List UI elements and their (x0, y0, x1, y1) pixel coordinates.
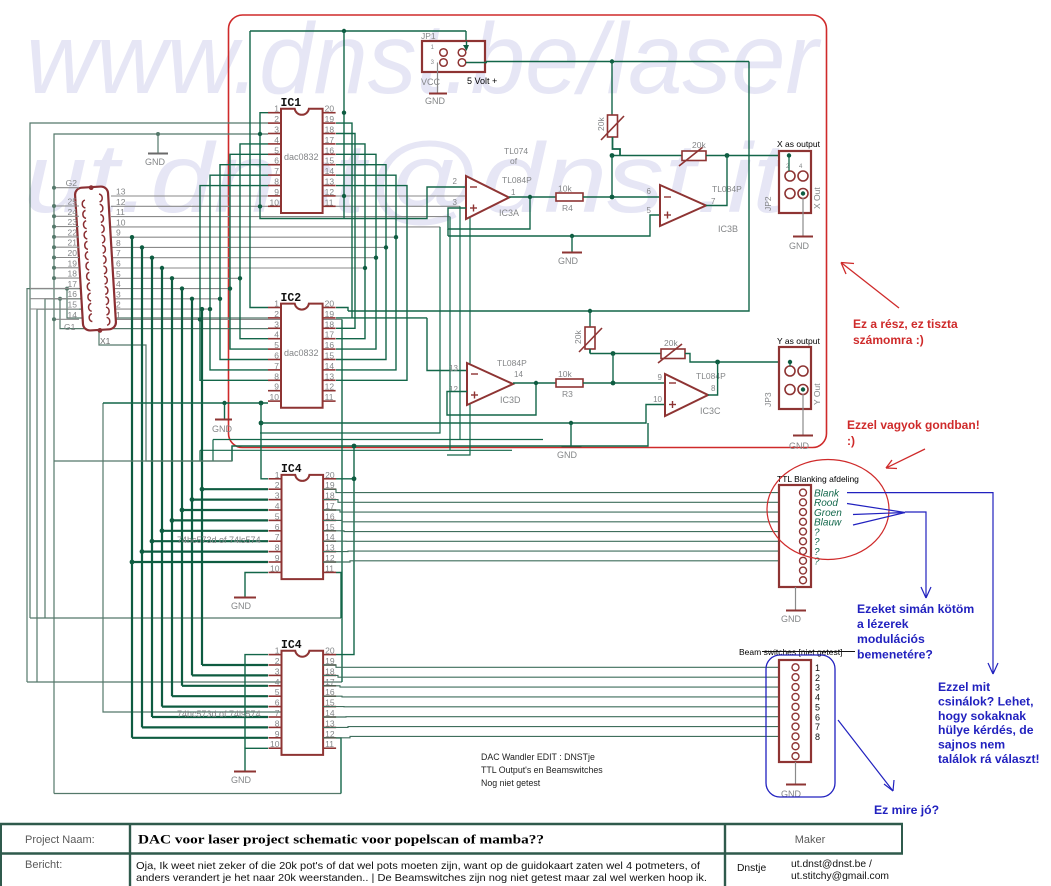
svg-text:3: 3 (116, 289, 121, 299)
IC IC2 pin 3 (268, 327, 281, 329)
svg-text:3: 3 (274, 125, 279, 135)
IC IC2 pin 6 (268, 359, 281, 361)
svg-text:12: 12 (449, 385, 458, 394)
bus wire x=376 right of IC1 (336, 154, 376, 349)
svg-text:8: 8 (274, 371, 279, 381)
red annotation box (229, 15, 827, 448)
IC IC2 pin 19 (323, 317, 336, 319)
wire IC4 upper pin 13 to TTL pin 7 (323, 550, 779, 553)
bus wire x=210 IC1-IC2 (210, 175, 268, 370)
svg-text:25: 25 (68, 197, 78, 207)
IC IC4 pin 11 (323, 571, 336, 573)
IC IC1 pin 8 (268, 185, 281, 187)
wire IC4 upper pin 12 to TTL pin 8 (323, 561, 779, 562)
IC IC2 pin 13 (323, 379, 336, 381)
svg-text:GND: GND (145, 157, 166, 167)
svg-text:anders verandert je het naar 2: anders verandert je het naar 20k weersta… (136, 873, 707, 884)
wire R4 to IC3B minus (583, 196, 660, 198)
svg-text:11: 11 (325, 563, 334, 573)
svg-text:5: 5 (116, 269, 121, 279)
ground GND under JP3 (801, 387, 805, 391)
svg-text:Ez mire jó?: Ez mire jó? (874, 803, 939, 817)
IC IC2 pin 20 (323, 307, 336, 309)
svg-text:15: 15 (325, 351, 335, 361)
wire y=461 horizontal (54, 460, 232, 462)
svg-text:15: 15 (325, 156, 335, 166)
IC IC4 pin 7 (269, 716, 282, 718)
wire IC4 upper pin 17 to TTL pin 3 (323, 510, 779, 512)
svg-text:18: 18 (325, 125, 335, 135)
svg-text:Oja, Ik weet niet zeker of die: Oja, Ik weet niet zeker of die 20k pot's… (136, 861, 700, 872)
IC IC4 pin 3 (269, 499, 282, 501)
svg-text:6: 6 (647, 187, 652, 196)
IC IC1 pin 5 (268, 153, 281, 155)
svg-text:2: 2 (453, 177, 458, 186)
IC IC4 pin 4 (269, 509, 282, 511)
wire control net DB25 pin12 down (459, 206, 461, 439)
wire IC3D feedback loop (447, 383, 536, 415)
svg-text:hülye kérdés, de: hülye kérdés, de (938, 723, 1034, 737)
svg-text:sajnos nem: sajnos nem (938, 738, 1005, 752)
svg-text:20k: 20k (596, 117, 606, 131)
svg-text:TTL Output's en Beamswitches: TTL Output's en Beamswitches (481, 765, 603, 775)
svg-text:10: 10 (116, 217, 126, 227)
bus wire x=200 IC1-IC2 (200, 186, 268, 381)
wire IC4 lower pin 19 to Beam pin 1 (323, 665, 779, 667)
svg-text:22: 22 (68, 227, 78, 237)
svg-text:2: 2 (815, 673, 820, 683)
data bus wire D3 (171, 278, 173, 696)
IC IC1 pin 6 (268, 164, 281, 166)
IC IC2 pin 1 (268, 307, 281, 309)
wire IC2 pin3 net to left frame (60, 299, 268, 329)
svg-text:G1: G1 (64, 322, 76, 332)
wire y=423 horizontal to IC3C plus (261, 405, 665, 424)
IC IC2 body (281, 304, 323, 408)
svg-text:GND: GND (425, 96, 446, 106)
svg-text:16: 16 (325, 340, 335, 350)
svg-text:20: 20 (68, 248, 78, 258)
svg-text:20: 20 (325, 299, 335, 309)
svg-text:G2: G2 (66, 178, 78, 188)
svg-text:6: 6 (274, 156, 279, 166)
IC IC2 pin 15 (323, 359, 336, 361)
svg-text:74hc573d of 74ls574: 74hc573d of 74ls574 (177, 709, 261, 719)
IC IC4 pin 3 (269, 674, 282, 676)
svg-text:4: 4 (274, 135, 279, 145)
svg-text:a lézerek: a lézerek (857, 617, 909, 631)
svg-text:11: 11 (325, 739, 334, 749)
svg-text:JP1: JP1 (421, 31, 436, 41)
svg-text:GND: GND (231, 775, 252, 785)
potentiometer 20k horizontal X (682, 151, 706, 161)
wire IC1 pin20 vertical x=344 (343, 31, 345, 219)
ground GND right of IC3D (569, 421, 573, 425)
svg-text:7: 7 (275, 532, 280, 542)
IC IC4 pin 16 (323, 519, 336, 521)
svg-text:20k: 20k (692, 140, 706, 150)
svg-text:Ezzel vagyok gondban!: Ezzel vagyok gondban! (847, 418, 980, 432)
svg-text:TL084P: TL084P (502, 175, 532, 185)
wire IC2 pin19 row to IC3D minus (336, 317, 427, 319)
IC IC4 pin 8 (269, 726, 282, 728)
wire IC3D output to R3 (513, 382, 556, 384)
IC IC4 pin 4 (269, 685, 282, 687)
wire G1 net from connector bottom (99, 332, 232, 461)
svg-text:4: 4 (275, 501, 280, 511)
svg-text:10: 10 (270, 392, 280, 402)
svg-text:dac0832: dac0832 (284, 348, 319, 358)
wire x=749 down to Y rail (348, 62, 749, 312)
svg-text:24: 24 (68, 207, 78, 217)
IC IC4 pin 12 (323, 561, 336, 563)
svg-text:1: 1 (815, 663, 820, 673)
svg-text:9: 9 (116, 228, 121, 238)
IC IC4 pin 17 (323, 685, 336, 687)
IC IC4 body (282, 475, 324, 579)
wire x=612 down to R4 row (611, 156, 613, 198)
wire horizontal y=439.5 below IC2 (213, 439, 543, 441)
wire IC4 upper pin 16 to TTL pin 4 (323, 520, 779, 521)
svg-text:18: 18 (325, 319, 335, 329)
svg-text:2: 2 (274, 309, 279, 319)
svg-text:17: 17 (325, 330, 335, 340)
wire IC4 lower pin 14 to Beam pin 6 (323, 716, 779, 718)
IC IC2 pin 11 (323, 400, 336, 402)
wire IC4 lower pin 18 to Beam pin 2 (323, 675, 779, 677)
svg-text:4: 4 (815, 693, 820, 703)
wire x=261 down to IC4a pin1 (261, 403, 268, 479)
wire IC2 pin10 net y=403 (103, 402, 268, 404)
svg-text:11: 11 (325, 197, 334, 207)
wire y=446 green horizontal (232, 423, 648, 461)
svg-text:IC2: IC2 (281, 292, 302, 305)
svg-text:2: 2 (275, 656, 280, 666)
wire IC1 pin2 net to left frame (30, 123, 268, 618)
wire from DB25 pin 3 (111, 298, 220, 300)
op-amp IC3A (466, 176, 509, 219)
svg-text:X Out: X Out (812, 187, 822, 209)
svg-text:10: 10 (270, 563, 280, 573)
svg-text:20: 20 (325, 646, 335, 656)
IC IC1 pin 11 (323, 205, 336, 207)
ground GND under Beam connector (795, 762, 797, 784)
svg-text:13: 13 (325, 371, 335, 381)
svg-text:8: 8 (711, 384, 716, 393)
wire IC3C output up to Y out net (708, 362, 718, 395)
svg-text:R4: R4 (562, 203, 573, 213)
svg-text:8: 8 (275, 543, 280, 553)
IC IC4 pin 8 (269, 551, 282, 553)
svg-text:GND: GND (789, 241, 810, 251)
IC IC4 pin 16 (323, 695, 336, 697)
wire IC1 pin19 to IC2 pin19 x=352 (336, 123, 352, 318)
data bus wire D2 (181, 289, 183, 686)
svg-text:19: 19 (325, 114, 335, 124)
op-amp IC3B (660, 185, 706, 226)
ground GND top-left (157, 134, 159, 153)
wire X pot output row y=155.5 (612, 155, 682, 157)
svg-text:GND: GND (789, 441, 810, 451)
svg-text:17: 17 (325, 135, 335, 145)
wire IC4 upper pin 15 to TTL pin 5 (323, 530, 779, 533)
connector TTL blanking (779, 485, 811, 587)
connector Beam switches (779, 660, 811, 762)
svg-text:3: 3 (275, 666, 280, 676)
ground GND below X channel (570, 234, 574, 238)
svg-text:JP3: JP3 (763, 392, 773, 407)
wire control net DB25 pin13 down (447, 196, 470, 455)
svg-text:6: 6 (116, 259, 121, 269)
svg-text:20: 20 (325, 104, 335, 114)
wire IC4 upper pin 19 to TTL pin 1 (323, 489, 779, 492)
svg-text:5: 5 (274, 340, 279, 350)
wire IC3A output to R4 (509, 196, 556, 198)
svg-text:2: 2 (116, 300, 121, 310)
wire from DB25 pin 8 (111, 246, 386, 248)
IC IC2 pin 18 (323, 327, 336, 329)
svg-text:IC1: IC1 (281, 97, 302, 110)
red arrow to schematic (841, 263, 899, 309)
wire IC4 pin20 vertical x=354 (336, 446, 354, 655)
IC IC1 pin 10 (268, 205, 281, 207)
IC IC4 pin 14 (323, 716, 336, 718)
IC IC1 pin 9 (268, 195, 281, 197)
op-amp IC3D (467, 363, 513, 405)
svg-text:8: 8 (274, 177, 279, 187)
resistor R3 10k (556, 379, 583, 387)
IC IC4 pin 20 (323, 654, 336, 656)
svg-text:9: 9 (658, 373, 663, 382)
svg-text:Project Naam:: Project Naam: (25, 834, 95, 846)
ground GND under IC2 (224, 403, 226, 419)
wire from DB25 pin 9 (111, 236, 396, 238)
IC IC4 body (282, 651, 324, 755)
wire from DB25 pin 6 (111, 267, 365, 269)
ground GND under JP1 (437, 63, 439, 94)
data bus wire D7 (131, 237, 133, 738)
wire control net DB25 pin11 down (449, 217, 451, 451)
IC IC1 pin 12 (323, 195, 336, 197)
wire 5V rail y=61.5 (462, 61, 749, 63)
wire top rail y=31 (250, 30, 466, 32)
IC IC1 pin 1 (268, 112, 281, 114)
svg-text:2: 2 (275, 480, 280, 490)
ground GND under JP2 (801, 191, 805, 195)
svg-text:csinálok? Lehet,: csinálok? Lehet, (938, 694, 1034, 708)
IC IC4 pin 9 (269, 561, 282, 563)
IC IC4 pin 6 (269, 530, 282, 532)
svg-text:6: 6 (275, 522, 280, 532)
svg-text:IC4: IC4 (281, 463, 302, 476)
svg-text::): :) (847, 434, 855, 448)
svg-text:2: 2 (274, 114, 279, 124)
svg-text:Y as output: Y as output (777, 336, 820, 346)
IC IC2 pin 7 (268, 369, 281, 371)
data bus wire D0 (201, 309, 203, 665)
svg-text:8: 8 (275, 718, 280, 728)
svg-text:3: 3 (275, 491, 280, 501)
IC IC4 pin 17 (323, 509, 336, 511)
IC IC4 pin 20 (323, 478, 336, 480)
svg-text:19: 19 (325, 309, 335, 319)
svg-text:találok rá választ!: találok rá választ! (938, 752, 1040, 766)
IC IC4 pin 5 (269, 519, 282, 521)
wire x=613 down to R3 row (612, 354, 614, 384)
svg-text:TTL Blanking afdeling: TTL Blanking afdeling (777, 474, 859, 484)
JP3 wire in (789, 362, 791, 366)
svg-text:5: 5 (647, 206, 652, 215)
svg-text:5: 5 (815, 702, 820, 712)
svg-text:Ezeket simán kötöm: Ezeket simán kötöm (857, 602, 974, 616)
wire x=250 from top rail to IC2 pin1 (250, 31, 268, 308)
data bus wire D1 (191, 299, 193, 676)
svg-text:17: 17 (68, 279, 78, 289)
IC IC4 pin 10 (269, 571, 282, 573)
svg-text:X1: X1 (100, 336, 111, 346)
wire IC4b pin1 to GND net (245, 655, 268, 749)
svg-text:Nog niet getest: Nog niet getest (481, 778, 541, 788)
svg-text:5: 5 (274, 145, 279, 155)
svg-text:13: 13 (325, 177, 335, 187)
connector X1 DB25 (75, 184, 117, 334)
wire control net DB25 pin10 down (260, 227, 440, 433)
svg-text:13: 13 (116, 187, 126, 197)
svg-text:20: 20 (325, 470, 335, 480)
IC IC4 pin 11 (323, 747, 336, 749)
IC IC1 pin 19 (323, 122, 336, 124)
data bus wire D6 (141, 247, 143, 727)
data bus wire D5 (151, 258, 153, 717)
IC IC4 pin 1 (269, 654, 282, 656)
svg-text:14: 14 (68, 310, 78, 320)
wire vertical x=103 and horizontal y=712 (103, 403, 300, 712)
svg-text:bemenetére?: bemenetére? (857, 647, 933, 661)
IC IC1 pin 4 (268, 143, 281, 145)
svg-text:GND: GND (781, 614, 802, 624)
svg-text:20k: 20k (664, 338, 678, 348)
svg-text:8: 8 (116, 238, 121, 248)
resistor R4 10k (556, 193, 583, 201)
svg-text:20k: 20k (573, 330, 583, 344)
svg-text:7: 7 (116, 248, 121, 258)
ground GND under IC4 lower (245, 748, 268, 771)
IC IC2 pin 9 (268, 390, 281, 392)
blue arrow to Ez mire jo (838, 720, 893, 791)
svg-text:5: 5 (275, 511, 280, 521)
IC IC2 pin 5 (268, 348, 281, 350)
svg-text:1: 1 (275, 470, 280, 480)
IC IC4 pin 6 (269, 706, 282, 708)
svg-text:Bericht:: Bericht: (25, 859, 62, 871)
IC IC1 pin 20 (323, 112, 336, 114)
svg-text:14: 14 (514, 370, 523, 379)
blue rounded box around Beam connector (766, 655, 835, 797)
ground GND under TTL connector (795, 587, 797, 610)
svg-text:15: 15 (68, 300, 78, 310)
wire from DB25 pin 7 (111, 257, 376, 259)
wire IC4a pin11 down to y=618 (336, 573, 341, 619)
wire IC2 pin2 net to left frame (67, 289, 268, 318)
wire from DB25 pin 1 (111, 318, 342, 320)
wire IC3B plus net y=236 (448, 215, 660, 236)
bus wire x=396 right of IC1 (336, 175, 396, 370)
svg-text:GND: GND (212, 424, 233, 434)
IC IC2 pin 16 (323, 348, 336, 350)
svg-text:9: 9 (274, 382, 279, 392)
connector X1 left pin wires (54, 187, 79, 189)
IC IC4 pin 10 (269, 747, 282, 749)
svg-text:IC3C: IC3C (700, 406, 721, 416)
svg-text:9: 9 (275, 729, 280, 739)
wire from DB25 pin 10 (111, 226, 440, 228)
IC IC4 pin 2 (269, 664, 282, 666)
bus wire x=220 IC1-IC2 (220, 165, 268, 360)
svg-text:TL084P: TL084P (696, 371, 726, 381)
svg-text:10: 10 (653, 395, 662, 404)
svg-text:IC3B: IC3B (718, 224, 738, 234)
IC IC2 pin 17 (323, 338, 336, 340)
op-amp IC3C (665, 374, 708, 416)
svg-text:IC4: IC4 (281, 639, 302, 652)
IC IC1 pin 3 (268, 133, 281, 135)
svg-text:X as output: X as output (777, 139, 821, 149)
svg-text:JP2: JP2 (763, 196, 773, 211)
wire IC1 pin1/pin3/pin10 net x=260 (260, 113, 466, 219)
bus wire x=407 right of IC1 (336, 186, 407, 381)
wire horizontal y=450.3 below IC2 (200, 449, 512, 451)
wire JP1 top pin drop (465, 31, 467, 50)
bus wire x=240 IC1-IC2 (240, 144, 268, 339)
blue line from Rood (847, 504, 905, 513)
JP2 wire in (788, 156, 790, 172)
potentiometer 20k vertical Y (589, 311, 591, 327)
table frame (0, 823, 903, 825)
wire long horizontal y=793.5 (54, 793, 341, 795)
svg-text:3: 3 (453, 198, 458, 207)
wire from DB25 pin 11 (111, 216, 450, 218)
IC IC4 pin 7 (269, 540, 282, 542)
wire from DB25 pin 12 (111, 205, 460, 207)
svg-text:DAC voor laser project schemat: DAC voor laser project schematic voor po… (138, 832, 544, 847)
svg-text:12: 12 (325, 187, 335, 197)
svg-text:23: 23 (68, 217, 78, 227)
red arrow to TTL ellipse (886, 449, 925, 468)
IC IC2 pin 12 (323, 390, 336, 392)
svg-text:3: 3 (815, 683, 820, 693)
svg-text:GND: GND (558, 256, 579, 266)
blue line from Blauw (853, 513, 905, 526)
red ellipse around TTL connector (767, 460, 889, 560)
IC IC1 pin 15 (323, 164, 336, 166)
svg-text:7: 7 (275, 708, 280, 718)
wire DB25 pin15 net (37, 309, 91, 682)
IC IC1 pin 13 (323, 185, 336, 187)
wire IC3A feedback loop (448, 197, 530, 229)
IC IC2 pin 2 (268, 317, 281, 319)
svg-text:IC3A: IC3A (499, 208, 519, 218)
IC IC4 pin 2 (269, 488, 282, 490)
svg-text:ut.stitchy@gmail.com: ut.stitchy@gmail.com (791, 871, 889, 882)
IC IC4 pin 18 (323, 674, 336, 676)
svg-text:11: 11 (325, 392, 334, 402)
IC IC4 pin 15 (323, 530, 336, 532)
svg-text:modulációs: modulációs (857, 632, 925, 646)
wire IC4b pin11 down to y=793.5 (336, 738, 341, 794)
svg-text:1: 1 (275, 646, 280, 656)
wire IC1 pin3 net to left frame (54, 134, 268, 794)
svg-text:ut.dnst@dnst.be /: ut.dnst@dnst.be / (791, 859, 872, 870)
